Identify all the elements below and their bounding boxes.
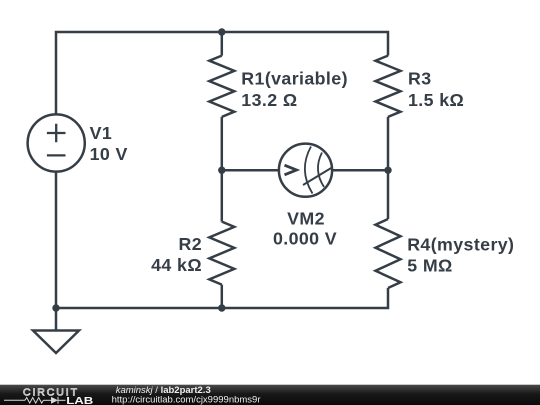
wire: R2 bottom lead <box>221 285 224 308</box>
svg-text:10 V: 10 V <box>90 144 128 164</box>
svg-text:R3: R3 <box>408 69 432 89</box>
node: bottom junction <box>218 304 225 311</box>
node: top junction <box>218 28 225 35</box>
resistor R3 <box>376 56 401 117</box>
node: bottom-left ground junction <box>52 304 59 311</box>
resistor R1 <box>209 56 234 117</box>
footer attribution text <box>112 385 261 405</box>
wire: R1 bottom lead through mid node into R2 top lead <box>221 117 224 222</box>
svg-text:R1(variable): R1(variable) <box>241 69 348 89</box>
svg-text:http://circuitlab.com/cjx9999n: http://circuitlab.com/cjx9999nbms9r <box>112 395 261 405</box>
label V1 value <box>90 123 128 164</box>
svg-text:R2: R2 <box>178 234 202 254</box>
svg-text:VM2: VM2 <box>287 208 325 228</box>
svg-text:LAB: LAB <box>66 395 93 405</box>
svg-text:1.5 kΩ: 1.5 kΩ <box>408 90 464 110</box>
svg-text:13.2 Ω: 13.2 Ω <box>241 90 297 110</box>
wire: R1 top lead <box>221 32 224 56</box>
svg-text:0.000 V: 0.000 V <box>273 228 337 248</box>
label R4 value <box>407 235 514 276</box>
label R1 value <box>241 69 348 111</box>
svg-text:5 MΩ: 5 MΩ <box>407 256 453 276</box>
wire: mid wire right (voltmeter to node B) <box>332 169 388 172</box>
wire: mid wire left (node A to voltmeter) <box>222 169 279 172</box>
label R2 value <box>151 234 202 275</box>
label R3 value <box>408 69 464 111</box>
CircuitLab logo <box>4 387 93 405</box>
svg-text:R4(mystery): R4(mystery) <box>407 235 514 255</box>
ground <box>33 331 79 354</box>
resistor R4 <box>376 219 401 288</box>
node A: left mid junction <box>218 167 225 174</box>
label VM2 value <box>273 208 337 248</box>
svg-text:44 kΩ: 44 kΩ <box>151 255 202 275</box>
wire: ground lead <box>55 308 58 331</box>
wire: V1 bottom lead <box>55 172 58 308</box>
voltmeter VM2 <box>279 144 332 197</box>
footer bar <box>0 385 540 405</box>
wire: R3 bottom lead through right mid node into R4 top lead <box>387 117 390 219</box>
wire: top rail with V1 top lead and R3 top lead <box>56 32 388 115</box>
svg-text:V1: V1 <box>90 123 113 143</box>
node B: right mid junction <box>384 167 391 174</box>
resistor R2 <box>209 222 234 285</box>
voltage source V1 <box>28 114 85 171</box>
wire: bottom rail with R4 bottom lead <box>56 288 388 308</box>
